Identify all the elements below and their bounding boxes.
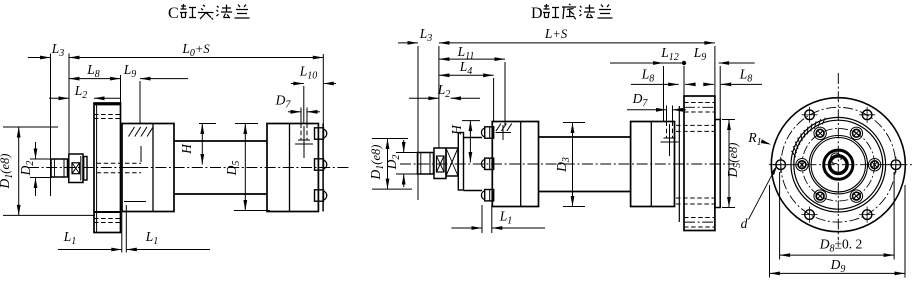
piston rod thread D xyxy=(418,153,434,175)
dimension D1(e8) C xyxy=(0,127,95,215)
dimension L9 C xyxy=(123,62,188,81)
rod washer C xyxy=(84,157,87,181)
retainer plate D xyxy=(458,133,463,191)
svg-text:D7: D7 xyxy=(632,91,649,109)
dimension L4 D xyxy=(439,59,494,77)
end plate C xyxy=(322,124,324,212)
front view counterbore circles xyxy=(809,136,867,194)
extension lines D xyxy=(418,46,720,233)
svg-text:L8: L8 xyxy=(86,62,100,80)
front view bolt circle D8 dash-dot xyxy=(781,107,896,222)
dimension L2 D xyxy=(409,82,480,100)
cylinder head block C xyxy=(122,124,174,212)
svg-text:D5: D5 xyxy=(224,161,242,177)
svg-text:D9: D9 xyxy=(830,257,846,275)
dimension L2 C xyxy=(49,83,121,101)
svg-text:D5(e8): D5(e8) xyxy=(725,143,743,179)
dimension L+S D xyxy=(439,26,715,45)
dimension D9 xyxy=(770,257,906,275)
cylinder tube D xyxy=(539,137,631,192)
dimension L11 D xyxy=(439,44,505,62)
dimension D5 C xyxy=(224,124,270,211)
svg-text:L3: L3 xyxy=(419,26,433,44)
bolt heads on end block C xyxy=(315,128,327,201)
front view inner screw circle dash-dot xyxy=(802,128,875,201)
cylinder bottom block D xyxy=(631,122,675,207)
dimension L10 C xyxy=(291,64,336,86)
svg-text:L0+S: L0+S xyxy=(181,41,210,59)
flange plate C xyxy=(94,103,142,233)
svg-text:C: C xyxy=(168,5,179,22)
front view centerlines xyxy=(769,73,914,240)
extension lines front view xyxy=(770,172,906,278)
bottom flange plate D xyxy=(676,96,715,231)
dimension D7 D xyxy=(627,91,686,112)
svg-text:L8: L8 xyxy=(739,67,753,85)
dimension D5(e8) D xyxy=(722,120,743,208)
front view inner socket screws xyxy=(796,127,881,202)
extension lines C xyxy=(51,54,324,253)
svg-text:L9: L9 xyxy=(123,62,137,80)
svg-text:L2: L2 xyxy=(74,83,88,101)
title C cylinder-head flange xyxy=(168,4,250,22)
svg-text:D8±0. 2: D8±0. 2 xyxy=(819,237,862,255)
svg-text:D2: D2 xyxy=(18,161,36,177)
front view hatch ticks on spigot annulus xyxy=(792,118,826,158)
spacer sleeve D xyxy=(464,138,483,191)
dimension L1 right C xyxy=(126,229,210,251)
dimension L9 D xyxy=(693,45,755,65)
dimension L1 left C xyxy=(58,229,122,251)
coupling block with cross D xyxy=(446,148,458,176)
svg-text:L3: L3 xyxy=(51,41,65,59)
piston rod thread C xyxy=(51,159,68,177)
dimension L0+S C xyxy=(69,41,323,59)
dimension L3 D xyxy=(398,26,432,45)
svg-text:L8: L8 xyxy=(641,67,655,85)
front view center hole xyxy=(830,153,848,174)
svg-text:H: H xyxy=(449,124,464,136)
rod nut C xyxy=(69,154,83,183)
dimension L8 left D xyxy=(631,67,714,87)
dimension D2 D xyxy=(384,140,417,187)
svg-text:L9: L9 xyxy=(693,45,707,63)
svg-text:D: D xyxy=(531,5,543,22)
dimension L8 right D xyxy=(721,67,762,87)
dimension D2 C xyxy=(18,142,52,196)
svg-text:L10: L10 xyxy=(299,64,318,82)
dimension L3 C xyxy=(28,41,64,59)
dimension D1(e8) D xyxy=(368,139,412,190)
dimension D7 C xyxy=(275,93,320,114)
dimension L12 D xyxy=(610,45,686,65)
centerline C assembly xyxy=(28,167,350,169)
svg-text:L1: L1 xyxy=(63,229,77,247)
svg-text:D7: D7 xyxy=(275,93,292,111)
dimension L8 C xyxy=(69,62,121,81)
front view center hub ring xyxy=(824,150,853,179)
svg-text:L1: L1 xyxy=(499,209,513,227)
svg-text:D2: D2 xyxy=(384,155,402,171)
washer plate D xyxy=(678,106,680,222)
cylinder tube C xyxy=(174,141,267,194)
port hole D7 hidden C xyxy=(295,124,313,159)
svg-text:D3: D3 xyxy=(554,157,572,173)
dimension H C xyxy=(179,124,216,165)
svg-text:d: d xyxy=(741,216,748,231)
leader d xyxy=(741,165,778,231)
cylinder head block D xyxy=(492,122,538,207)
leader R1 xyxy=(747,130,771,148)
svg-text:L12: L12 xyxy=(660,45,679,63)
dimension H D xyxy=(449,121,480,163)
front view spigot circles xyxy=(791,117,886,212)
cylinder end block C xyxy=(267,124,318,212)
svg-text:D1(e8): D1(e8) xyxy=(0,154,15,190)
svg-text:L+S: L+S xyxy=(544,26,568,41)
dimension L1 D xyxy=(451,209,545,230)
port hole D7 hidden D xyxy=(661,122,679,157)
flange bolts pointing left D xyxy=(481,127,493,201)
rod nut D xyxy=(434,148,446,179)
front view outer bolt holes d xyxy=(773,107,904,223)
svg-text:L1: L1 xyxy=(145,229,159,247)
dimension D8 +-0.2 xyxy=(780,237,895,258)
svg-text:R1: R1 xyxy=(747,130,761,148)
svg-text:H: H xyxy=(179,143,194,155)
dimension D3 D xyxy=(554,123,585,207)
title D cylinder-bottom flange xyxy=(531,4,613,22)
front view outer flange circle D9 xyxy=(771,98,905,232)
flange pilot boss D5(e8) xyxy=(715,120,720,208)
centerline D assembly xyxy=(400,163,735,165)
